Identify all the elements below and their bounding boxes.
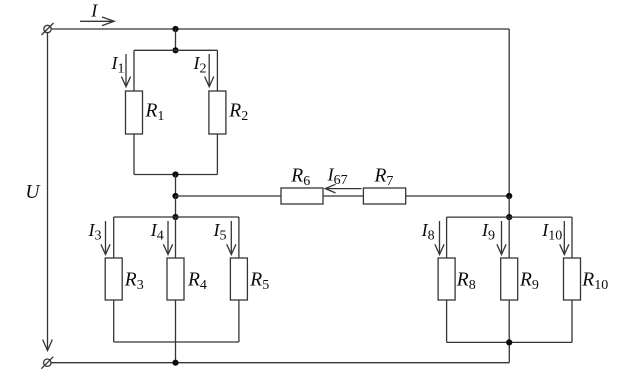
node right group bottom	[506, 339, 512, 345]
wire R8 bottom lead	[446, 300, 448, 342]
svg-text:I: I	[90, 1, 98, 21]
arrow U direction	[43, 340, 53, 351]
arrow current I9	[497, 221, 506, 255]
svg-text:I9: I9	[481, 220, 495, 244]
wire left rail	[47, 33, 49, 350]
wire bottom-right riser	[508, 342, 510, 362]
wire R9 top lead	[508, 217, 510, 258]
wire R1 bottom lead	[133, 134, 135, 175]
arrow current I5	[227, 221, 236, 255]
svg-text:R5: R5	[249, 270, 269, 294]
wire right drop	[508, 29, 510, 196]
wire R9 bottom lead	[508, 300, 510, 342]
svg-text:I5: I5	[213, 220, 227, 244]
svg-text:R4: R4	[187, 270, 207, 294]
wire right group bottom bus	[447, 341, 572, 343]
arrow current I	[80, 17, 114, 26]
node bottom rail left	[172, 360, 178, 366]
resistor R5	[230, 258, 247, 300]
wire R5 bottom lead	[238, 300, 240, 342]
node R1R2 top	[172, 47, 178, 53]
wire right group top bus	[447, 216, 572, 218]
wire left group link	[175, 196, 177, 217]
wire R1R2 bottom bus	[134, 174, 217, 176]
wire R2 top lead	[216, 50, 218, 91]
wire R4 top lead	[175, 217, 177, 258]
arrow current I4	[163, 221, 172, 255]
svg-text:I4: I4	[150, 220, 164, 244]
svg-text:I67: I67	[327, 164, 348, 188]
arrow current I1	[121, 54, 130, 87]
terminal bottom-left	[41, 357, 53, 369]
arrow current I67	[325, 184, 361, 193]
wire left group bottom bus	[114, 341, 239, 343]
wire middle bus right	[406, 195, 510, 197]
wire middle bus center	[323, 195, 363, 197]
svg-text:I10: I10	[541, 220, 562, 244]
svg-text:U: U	[25, 182, 41, 203]
resistor R7	[363, 188, 405, 204]
arrow current I8	[435, 221, 444, 255]
wire R3 top lead	[113, 217, 115, 258]
node middle right	[506, 193, 512, 199]
resistor R10	[564, 258, 581, 300]
terminal top-left	[42, 23, 54, 35]
node junction top rail	[172, 26, 178, 32]
svg-text:I1: I1	[111, 53, 125, 77]
svg-text:R6: R6	[290, 165, 310, 189]
node R1R2 bottom	[172, 171, 178, 177]
node right group top	[506, 214, 512, 220]
wire right group link	[508, 196, 510, 217]
svg-text:R7: R7	[374, 165, 394, 189]
svg-text:R2: R2	[228, 101, 248, 125]
svg-text:R3: R3	[124, 270, 144, 294]
svg-text:R10: R10	[581, 270, 608, 294]
wire R10 bottom lead	[571, 300, 573, 342]
wire top rail	[51, 28, 509, 30]
arrow current I3	[101, 221, 110, 255]
svg-text:R1: R1	[145, 101, 165, 125]
wire R2 bottom lead	[216, 134, 218, 175]
arrow current I10	[560, 221, 569, 255]
wire R10 top lead	[571, 217, 573, 258]
wire top node link	[175, 29, 177, 50]
wire left group top bus	[114, 216, 239, 218]
resistor R1	[126, 91, 143, 134]
resistor R8	[438, 258, 455, 300]
wire middle node link	[175, 175, 177, 197]
arrow current I2	[205, 54, 214, 87]
resistor R3	[105, 258, 122, 300]
resistor R6	[281, 188, 323, 204]
node middle left	[172, 193, 178, 199]
wire R4 bottom lead	[175, 300, 177, 363]
node left group top	[172, 214, 178, 220]
resistor R2	[209, 91, 226, 134]
wire R1R2 top bus	[134, 49, 217, 51]
wire R3 bottom lead	[113, 300, 115, 342]
svg-text:I3: I3	[88, 220, 102, 244]
resistor R4	[167, 258, 184, 300]
wire bottom rail	[51, 362, 509, 364]
wire middle bus left	[176, 195, 282, 197]
svg-text:R8: R8	[456, 270, 476, 294]
wire R1 top lead	[133, 50, 135, 91]
svg-text:R9: R9	[519, 270, 539, 294]
svg-text:I8: I8	[421, 220, 435, 244]
svg-text:I2: I2	[193, 53, 207, 77]
wire R8 top lead	[446, 217, 448, 258]
resistor R9	[501, 258, 518, 300]
wire R5 top lead	[238, 217, 240, 258]
